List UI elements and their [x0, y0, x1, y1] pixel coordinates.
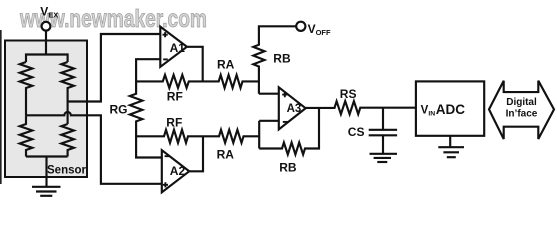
svg-text:Sensor: Sensor — [47, 165, 87, 177]
svg-text:RA: RA — [217, 58, 235, 72]
svg-text:ADC: ADC — [436, 102, 465, 117]
svg-text:RF: RF — [166, 116, 182, 130]
svg-text:V: V — [308, 22, 316, 36]
svg-text:A3: A3 — [287, 103, 302, 115]
svg-text:CS: CS — [348, 125, 365, 139]
svg-text:RB: RB — [273, 51, 291, 65]
svg-text:A2: A2 — [170, 164, 186, 178]
svg-text:In’face: In’face — [506, 109, 538, 120]
svg-text:V: V — [40, 4, 48, 18]
svg-text:OFF: OFF — [316, 28, 331, 37]
svg-text:RB: RB — [279, 160, 297, 174]
svg-text:IN: IN — [428, 111, 435, 118]
svg-text:Digital: Digital — [506, 97, 537, 108]
svg-text:RG: RG — [110, 102, 128, 116]
svg-text:A1: A1 — [170, 41, 186, 55]
svg-text:RA: RA — [217, 147, 235, 161]
svg-text:RF: RF — [167, 89, 183, 103]
svg-text:RS: RS — [340, 87, 357, 101]
svg-text:V: V — [421, 105, 429, 117]
svg-text:EX: EX — [48, 10, 58, 19]
